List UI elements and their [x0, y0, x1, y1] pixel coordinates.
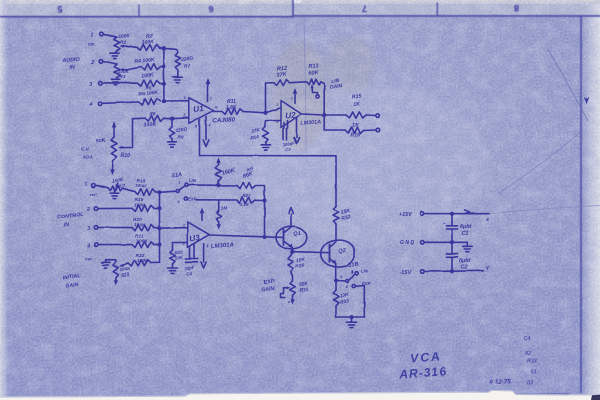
control terminal 3 [87, 226, 97, 232]
pin3 label U2 [276, 120, 279, 124]
label R27 [240, 193, 252, 207]
svg-text:100K: 100K [118, 33, 130, 40]
wire node to R7 [164, 48, 178, 52]
warm stain upper middle [272, 40, 328, 150]
warm stain right of U2 [325, 37, 375, 93]
Q1 emitter [284, 241, 293, 252]
svg-text:C2: C2 [461, 265, 468, 271]
pin3 label U3 [183, 242, 186, 246]
label R10 [121, 153, 131, 159]
label Q1 [293, 231, 301, 238]
ground below Q2 [347, 317, 357, 327]
node R27 junction [262, 198, 266, 202]
label LIN S1B [361, 268, 369, 273]
label R13 [308, 63, 320, 77]
U2 pin7 arrowhead [293, 88, 298, 94]
label C4 [184, 265, 195, 277]
U1 pin5 label [195, 125, 198, 129]
U1 pin7 arrowhead [205, 78, 210, 84]
svg-text:U2: U2 [285, 111, 297, 121]
wire input1 to R1 [103, 34, 117, 37]
label cw arrow R1 [88, 42, 96, 47]
svg-text:7: 7 [362, 4, 367, 14]
paper crease horizontal [489, 206, 600, 214]
svg-text:C1: C1 [462, 231, 469, 237]
capacitor C1 6ufd [443, 214, 458, 243]
capacitor C2 6ufd [447, 242, 458, 271]
-15V rail wire [424, 270, 483, 273]
ruler number 8 [514, 3, 519, 13]
svg-text:IN: IN [64, 222, 70, 228]
bottom right corner dark edge [591, 395, 600, 400]
svg-text:330K: 330K [143, 122, 157, 129]
label U1 [193, 104, 205, 114]
svg-text:2: 2 [90, 60, 94, 66]
R26 bottom arrowhead [217, 224, 221, 229]
ruler tick a [138, 5, 140, 17]
label R14 [250, 127, 261, 142]
label R2 [141, 33, 155, 46]
svg-text:U1: U1 [193, 104, 205, 114]
U1 pin6 label [216, 106, 219, 110]
label CONTROL IN [57, 212, 83, 228]
U1 pin7 V+ wire [208, 85, 213, 102]
label 1M R26 [221, 206, 228, 211]
resistor R7 220ohm [175, 53, 180, 71]
resistor R5 100K [138, 80, 161, 86]
svg-text:8: 8 [207, 244, 209, 248]
switch S1A [160, 181, 189, 193]
bottom wire S1B [336, 316, 364, 318]
svg-text:100K: 100K [134, 222, 146, 228]
svg-text:R10: R10 [121, 153, 131, 159]
svg-text:2: 2 [86, 207, 90, 213]
svg-text:3.3K: 3.3K [240, 202, 250, 207]
label R12 [276, 66, 288, 79]
label INITIAL GAIN [62, 274, 81, 290]
R23 bottom arrowhead [114, 278, 118, 286]
potentiometer R3 100K [114, 64, 127, 78]
R10 wiper wire [118, 119, 133, 150]
wire R3 wiper to R4 [126, 67, 141, 70]
label LIN contact S1A [189, 178, 197, 183]
border bottom right line [514, 394, 569, 396]
node control bus 3 [154, 226, 162, 230]
label Y [486, 266, 491, 272]
label R28 [174, 249, 184, 260]
node ground junction [349, 315, 353, 319]
label U3 [189, 233, 201, 243]
ground below R14 [261, 143, 270, 151]
switch S1B arm [338, 274, 355, 282]
title AR-316 [398, 364, 448, 381]
transistor Q1 envelope [276, 226, 307, 249]
svg-text:100K: 100K [137, 258, 149, 264]
wire cterm3 to R20 [98, 226, 132, 228]
output terminal lower [376, 128, 380, 132]
svg-text:4: 4 [86, 243, 90, 249]
op-amp U1 [189, 98, 214, 124]
svg-text:100K: 100K [135, 183, 147, 189]
R10 top arrowhead +V [112, 122, 116, 128]
svg-text:1M: 1M [221, 206, 228, 211]
svg-text:R18: R18 [137, 178, 146, 184]
U2 pin4 arrowhead [294, 138, 299, 144]
R10 bottom wire [112, 160, 115, 170]
label R18 [135, 178, 147, 189]
ruler band strip [0, 4, 600, 17]
switch S1B label [347, 261, 359, 269]
svg-text:-15V: -15V [400, 270, 412, 276]
label R19 [134, 197, 146, 209]
wire Q1 emitter to Q2 base [292, 252, 329, 253]
wire node to U1 pin2 [172, 117, 189, 120]
wire R5 to node [160, 83, 164, 85]
svg-text:R8: R8 [150, 111, 156, 116]
node GND [450, 240, 454, 244]
op-amp U2 [281, 101, 302, 128]
U1 pin4 arrowhead [203, 140, 209, 147]
ground at R23 [101, 262, 110, 267]
R31 bottom arrowhead [288, 296, 295, 305]
svg-text:R16: R16 [351, 132, 361, 138]
op-amp U3 [187, 222, 209, 248]
ground below R28 [168, 264, 178, 273]
Q1 base bar [283, 230, 285, 245]
potentiometer R17 100K [108, 183, 123, 191]
label CV ADJ [81, 147, 93, 161]
label R7 [180, 55, 194, 69]
S1B EXP contact [345, 285, 355, 290]
EXP terminal S1A [178, 197, 188, 204]
svg-text:03: 03 [527, 380, 533, 386]
wire LIN to node [188, 184, 219, 186]
U3 pin7 arrowhead [200, 208, 205, 214]
label R11 [226, 99, 237, 111]
label R3 value [118, 69, 130, 79]
svg-text:R22: R22 [136, 253, 145, 259]
wire input4 to R6 [102, 102, 138, 103]
label C3 [282, 140, 295, 152]
label R17 value [112, 177, 127, 189]
resistor R12 37K [266, 80, 307, 86]
ruler tick c [436, 3, 438, 17]
label R21 [135, 233, 148, 244]
note 51 [531, 370, 537, 376]
label R22 [136, 253, 150, 264]
border top rule line [0, 15, 600, 18]
paper fold crease vertical [304, 17, 306, 150]
potentiometer R13 60K [307, 79, 321, 85]
resistor R25 86K [219, 182, 265, 200]
wire R32 to Q2 collector [335, 224, 337, 240]
node U1 pin2 [170, 117, 174, 121]
control terminal 1 [84, 181, 95, 187]
svg-text:1: 1 [179, 181, 181, 185]
label EXP GAIN [261, 279, 275, 294]
wire R17 wiper to R18 [123, 188, 135, 191]
title VCA [410, 349, 443, 365]
node U2 inverting input [263, 111, 267, 115]
wire R4 to node [160, 66, 164, 68]
wire cterm1 to R17 [95, 185, 108, 187]
svg-text:ADJ.: ADJ. [82, 155, 94, 161]
svg-text:R20: R20 [133, 217, 142, 223]
ground below R17 [110, 188, 119, 198]
svg-text:U3: U3 [189, 233, 201, 243]
right paper edge [582, 4, 600, 400]
svg-text:GND: GND [400, 240, 416, 246]
R23 top wire to ground [106, 260, 116, 262]
wire R13 down to output node [321, 82, 324, 115]
svg-text:C.V.: C.V. [81, 147, 90, 153]
potentiometer R23 100K [113, 262, 119, 278]
wire U2 out [302, 114, 325, 115]
wire EXP to R27 [196, 199, 236, 201]
GND rail wire [424, 241, 467, 243]
wire U3 pin3 to R28 [173, 243, 188, 251]
resistor R26 1M [216, 200, 221, 225]
Q2 emitter [330, 259, 337, 280]
resistor R24 160K [216, 163, 222, 186]
top paper edge [0, 0, 600, 4]
Q2 collector [330, 242, 337, 248]
wire input3 to R5 [102, 82, 137, 84]
R31 wiper [281, 286, 291, 297]
wire R2 to node [160, 47, 164, 50]
resistor R33 10K [333, 280, 339, 317]
svg-text:VCA: VCA [410, 349, 443, 365]
output terminal upper [376, 114, 380, 118]
U3 pin4 V- wire [204, 244, 209, 263]
label R5 value [141, 72, 155, 91]
label R20 [133, 217, 146, 228]
transistor Q2 envelope [321, 240, 355, 267]
wire U1 out to R11 [214, 110, 222, 112]
wire R8 to node [164, 117, 172, 119]
svg-text:CA3080: CA3080 [212, 116, 236, 124]
left paper edge [0, 0, 8, 400]
label R4 [134, 57, 156, 65]
label R9 [174, 126, 187, 139]
wire R30 to R31 [291, 272, 293, 282]
label 50K R10 [96, 137, 107, 144]
label EXP contact S1A [188, 197, 197, 202]
label AUDIO IN [61, 57, 81, 71]
svg-text:6: 6 [208, 4, 213, 14]
svg-text:cw↑: cw↑ [88, 42, 96, 47]
svg-text:R15: R15 [352, 94, 362, 101]
label R16 [351, 122, 361, 138]
pin2 label U1 [183, 114, 187, 118]
ruler tick b [292, 0, 294, 17]
svg-text:3: 3 [87, 226, 90, 232]
ground below R1 [111, 51, 120, 59]
svg-text:R33: R33 [527, 359, 537, 365]
note 92 [525, 351, 531, 357]
paper crease lower left diag [383, 336, 420, 368]
wire U3 output to Q1 base [209, 235, 283, 237]
top edge white notch [293, 0, 301, 3]
svg-text:51: 51 [531, 370, 537, 376]
input terminal 2 [90, 60, 103, 66]
resistor R14 37K [263, 127, 269, 143]
svg-text:R13: R13 [308, 63, 320, 70]
node R24 junction [216, 183, 220, 187]
node +15V [450, 212, 454, 216]
ground at GND rail [463, 242, 473, 251]
wire cterm2 to R19 [98, 207, 132, 209]
node audio bus top [162, 46, 166, 50]
wire bus to U1 pin3 [164, 96, 189, 101]
label 160K R24 [221, 167, 236, 177]
resistor R30 10K [288, 252, 294, 272]
svg-text:1: 1 [91, 33, 94, 39]
svg-text:100K: 100K [134, 203, 146, 209]
+15V rail wire [424, 213, 489, 215]
ground below R7 [173, 70, 182, 83]
svg-text:6μfd: 6μfd [460, 224, 472, 230]
U2 pin4 V- wire [296, 118, 298, 138]
feedback riser wire [265, 83, 267, 113]
input terminal 1 [91, 32, 104, 38]
node audio bus 2 [162, 64, 166, 68]
R24 top arrowhead [216, 158, 220, 164]
wire feedback node to U3 output [264, 201, 266, 238]
svg-text:8: 8 [514, 3, 519, 13]
svg-text:IN: IN [69, 64, 75, 70]
Q1 collector [284, 214, 292, 233]
svg-text:+15V: +15V [399, 212, 412, 218]
border right frame line [580, 16, 582, 393]
torn bottom paper edge [0, 390, 600, 400]
ruler number 7 [362, 4, 367, 14]
label R31 [299, 281, 310, 295]
potentiometer R10 50K [111, 128, 117, 161]
resistor R8 330K [145, 115, 164, 121]
U3 pin7 V+ wire [201, 213, 203, 221]
U2 pin3 wire to R14 [266, 121, 282, 127]
+15V rail arrow [465, 210, 470, 214]
svg-text:R9: R9 [178, 135, 184, 140]
+15V terminal [421, 212, 425, 216]
S1B LIN contact [340, 271, 358, 278]
ground below R9 [168, 139, 177, 147]
label CA3080 [212, 116, 236, 124]
svg-text:R1: R1 [120, 40, 126, 46]
svg-text:6-12-75: 6-12-75 [489, 378, 511, 386]
schematic ink [57, 32, 537, 386]
svg-text:R21: R21 [135, 233, 144, 239]
label EXP S1B [362, 281, 371, 286]
label 86K R25 [242, 166, 255, 180]
label R6 value [138, 90, 159, 98]
resistor R16 1K [346, 127, 364, 133]
pin2 label U3 [182, 224, 186, 228]
potentiometer R31 50K [290, 281, 296, 296]
R23 wiper to R22 [119, 263, 128, 267]
compensation capacitor C4 30pF [186, 244, 198, 262]
resistor R2 100K [137, 44, 160, 50]
date 6-12-75 [489, 378, 511, 386]
label R32 [340, 207, 352, 221]
control terminal 2 [86, 207, 98, 213]
svg-text:R11: R11 [227, 99, 236, 105]
wire U1 pin5 long route to R32 [200, 120, 337, 206]
switch S1A label [171, 172, 183, 179]
wire R27 to node [255, 199, 265, 201]
wire R22 to bus [151, 261, 160, 263]
node Q1 emitter [290, 250, 294, 254]
svg-text:6μfd: 6μfd [459, 258, 471, 264]
node control bus 1 [157, 190, 161, 194]
note C4 [524, 336, 531, 342]
wire R11 to U2 node [243, 108, 281, 113]
wire R16 to output terminal [364, 129, 377, 132]
label R30 [295, 256, 306, 270]
svg-text:cw↑: cw↑ [85, 256, 93, 261]
label C1 [460, 224, 472, 237]
label +15V [399, 212, 412, 218]
note R33 [527, 359, 537, 365]
label R33 [339, 292, 350, 306]
svg-text:Q1: Q1 [293, 231, 301, 238]
node U2 output [322, 113, 326, 117]
svg-text:R19: R19 [135, 197, 144, 203]
resistor R15 1K [346, 112, 366, 118]
resistor R28 50K [170, 250, 176, 264]
wire R15 to output terminal [366, 114, 376, 117]
resistor R20 100K [132, 224, 154, 230]
wire input2 to R3 [103, 62, 117, 65]
note 03 [527, 380, 533, 386]
svg-text:R7: R7 [184, 64, 190, 70]
resistor R27 3.3K [236, 197, 255, 203]
label GND [400, 240, 416, 246]
audio summing bus wire [163, 48, 165, 101]
label R1 value [118, 33, 130, 46]
svg-text:LIN: LIN [189, 178, 197, 183]
wire R18 to bus [155, 191, 159, 193]
label Q2 [338, 248, 347, 255]
node audio bus 4 [162, 99, 166, 103]
svg-text:C4: C4 [524, 336, 531, 342]
label R23 [119, 266, 131, 278]
U1 pin4 V- wire [206, 117, 212, 140]
potentiometer R1 100K [114, 37, 127, 51]
wire to R15 [324, 114, 346, 116]
resistor R4 100K [141, 64, 160, 70]
control bus wire [159, 192, 161, 262]
paper crease small arrow mark [585, 98, 589, 104]
input terminal 4 [88, 102, 102, 109]
input terminal 3 [89, 81, 102, 88]
svg-text:cw↑: cw↑ [90, 192, 98, 197]
resistor R19 100K [132, 205, 154, 211]
label LIN GAIN trim [329, 78, 343, 91]
ground below R3 [111, 78, 120, 85]
resistor R21 100K [132, 241, 154, 247]
svg-text:LIN: LIN [361, 268, 369, 273]
resistor R18 100K [135, 189, 155, 195]
wire R10 wiper to R8 [133, 117, 146, 120]
ruler number 6 [208, 4, 213, 14]
R13 wiper to trim terminal [311, 84, 320, 98]
node U3 output [262, 235, 266, 239]
compensation capacitor C3 100pF [283, 121, 288, 141]
wire S1B EXP down [355, 286, 364, 317]
Q2 base bar [329, 245, 331, 262]
